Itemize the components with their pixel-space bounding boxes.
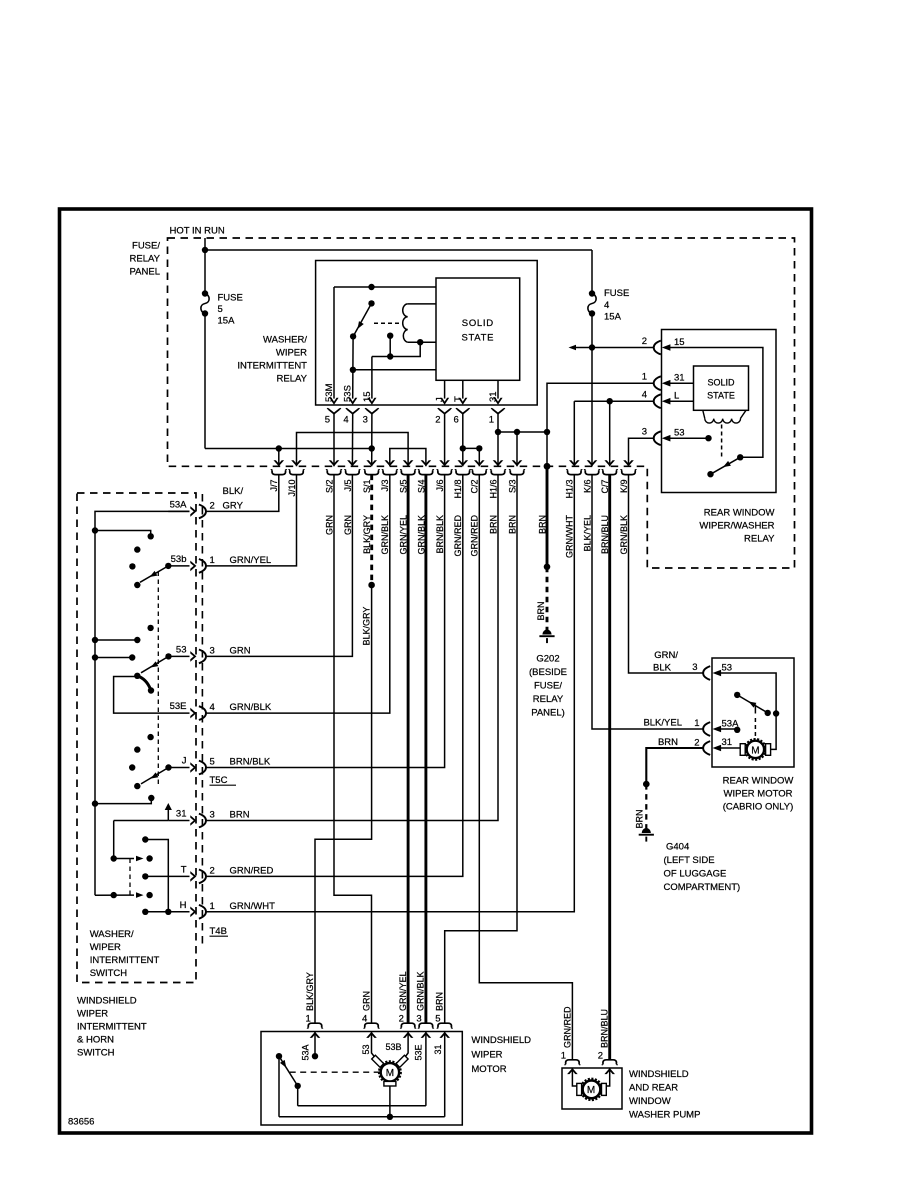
svg-text:WASHER/: WASHER/ bbox=[90, 929, 134, 940]
svg-text:2: 2 bbox=[399, 1014, 404, 1025]
switch M2 park contacts bbox=[734, 692, 779, 717]
svg-text:REAR WINDOW: REAR WINDOW bbox=[704, 508, 775, 519]
wire fuse4 to U2 pin2 bbox=[592, 347, 654, 349]
svg-text:BRN: BRN bbox=[230, 810, 250, 821]
label T4B bbox=[210, 926, 229, 937]
svg-text:3: 3 bbox=[416, 1014, 421, 1025]
wire U1 pin1 stem bbox=[497, 380, 499, 398]
connector 1 at pump (GRN/RED) bbox=[561, 1006, 580, 1074]
pump M3 box bbox=[562, 1068, 622, 1109]
svg-text:GRN: GRN bbox=[361, 991, 371, 1011]
svg-text:1: 1 bbox=[489, 415, 494, 426]
svg-text:53: 53 bbox=[674, 428, 685, 439]
svg-text:T4B: T4B bbox=[210, 926, 227, 937]
svg-text:2: 2 bbox=[598, 1051, 603, 1062]
wire fuse4 feed drop bbox=[591, 250, 593, 294]
connector H1/8 at panel edge bbox=[453, 460, 470, 556]
arrow feed to other circuits bbox=[569, 345, 593, 351]
wire M1 park common bbox=[278, 1056, 280, 1117]
node L row at C/7 bbox=[607, 398, 613, 404]
wire U2 L internal bbox=[668, 400, 694, 402]
connector J/3 at panel edge bbox=[380, 460, 397, 554]
svg-text:15A: 15A bbox=[604, 312, 622, 323]
svg-text:31: 31 bbox=[433, 1044, 443, 1054]
coil U1 bbox=[403, 304, 408, 342]
svg-text:PANEL: PANEL bbox=[130, 267, 160, 278]
label HOT IN RUN bbox=[170, 226, 225, 237]
node fuse rail at J/7 bbox=[276, 445, 282, 451]
wire H1/3 GRN/WHT to switch pin H bbox=[205, 475, 574, 912]
wire H1/6 BRN to switch pin 31 bbox=[205, 475, 498, 821]
svg-text:H1/8: H1/8 bbox=[453, 480, 463, 499]
label WINDSHIELD WIPER MOTOR bbox=[471, 1035, 531, 1075]
diagram number 83656 bbox=[68, 1117, 94, 1128]
svg-text:GRN/WHT: GRN/WHT bbox=[565, 515, 575, 558]
svg-text:WIPER: WIPER bbox=[276, 348, 307, 359]
label 53 in M1 bbox=[361, 1044, 371, 1054]
label BLK/YEL at rear motor pin 1 bbox=[643, 718, 682, 729]
svg-text:WIPER/WASHER: WIPER/WASHER bbox=[699, 521, 774, 532]
pin 6 (T) relay U1 exit bbox=[453, 396, 470, 426]
wire wafer4 mid to H row bbox=[145, 840, 168, 912]
wire U1 coil bottom lead bbox=[408, 341, 436, 343]
contact dot wafer2 upper bbox=[147, 625, 153, 631]
connector J/7 at panel edge bbox=[269, 460, 286, 491]
svg-text:(LEFT SIDE: (LEFT SIDE bbox=[664, 855, 715, 866]
pin 2 (J) relay U1 exit bbox=[435, 397, 452, 426]
svg-text:3: 3 bbox=[642, 427, 647, 438]
wire K/9 GRN/BLK to rear motor bbox=[629, 475, 704, 673]
link wafer4 dashed bbox=[129, 859, 131, 896]
wire brn rail bbox=[498, 431, 547, 433]
wiper arc wafer2 bbox=[137, 676, 150, 690]
svg-text:GRN/BLK: GRN/BLK bbox=[619, 515, 629, 555]
switch wafer1 53b moving contact bbox=[134, 563, 171, 589]
svg-text:FUSE/: FUSE/ bbox=[132, 241, 160, 252]
svg-text:GRN/RED: GRN/RED bbox=[562, 1006, 572, 1048]
svg-text:53S: 53S bbox=[343, 385, 354, 402]
connector 4 at motor M1 (GRN) bbox=[361, 991, 379, 1038]
svg-text:GRN/BLK: GRN/BLK bbox=[230, 702, 272, 713]
svg-text:MOTOR: MOTOR bbox=[471, 1064, 506, 1075]
wire grn/yel rail J/10 to S/5 bbox=[297, 433, 409, 467]
node fuse rail at S/1 bbox=[369, 445, 375, 451]
svg-text:53M: 53M bbox=[324, 383, 335, 402]
wire fuse5 feed drop bbox=[204, 250, 206, 294]
wire M1 53E bus bbox=[298, 1105, 426, 1107]
label 53B in M1 bbox=[386, 1042, 402, 1052]
svg-text:1: 1 bbox=[210, 901, 215, 912]
connector K/6 at panel edge bbox=[582, 460, 599, 551]
wire U1 coil top lead bbox=[408, 303, 436, 305]
svg-text:G202: G202 bbox=[536, 654, 559, 665]
svg-text:INTERMITTENT: INTERMITTENT bbox=[90, 955, 160, 966]
svg-text:BRN/BLU: BRN/BLU bbox=[600, 1009, 610, 1048]
connector S/4 at panel edge bbox=[416, 460, 433, 554]
wire M2 53A stub bbox=[719, 727, 740, 733]
svg-text:5: 5 bbox=[435, 1014, 440, 1025]
wire BRN dashed to G404 bbox=[645, 784, 647, 831]
svg-text:WIPER: WIPER bbox=[90, 942, 121, 953]
wire M2 ground lead bbox=[646, 748, 704, 784]
wire pin3 to fuse rail bbox=[371, 414, 373, 467]
svg-text:3: 3 bbox=[692, 662, 697, 673]
connector J/6 at panel edge bbox=[435, 460, 452, 553]
svg-text:WINDOW: WINDOW bbox=[629, 1096, 671, 1107]
svg-text:GRN/BLK: GRN/BLK bbox=[416, 971, 426, 1011]
wire wafer2 arm a bbox=[95, 637, 141, 643]
svg-text:15: 15 bbox=[362, 391, 373, 402]
wire J/5 GRN to switch pin 3 bbox=[205, 475, 352, 657]
svg-text:1: 1 bbox=[694, 718, 699, 729]
svg-text:BRN: BRN bbox=[435, 992, 445, 1011]
connector S/1 at panel edge bbox=[362, 460, 379, 554]
relay U1 washer/wiper intermittent relay box bbox=[316, 261, 538, 406]
switch wafer2 53 moving contact bbox=[134, 653, 172, 679]
svg-text:AND REAR: AND REAR bbox=[629, 1083, 678, 1094]
solid state module U1a bbox=[436, 278, 520, 380]
switch terminal T (pin 2) bbox=[181, 864, 274, 883]
svg-text:4: 4 bbox=[210, 702, 215, 713]
svg-text:WIPER: WIPER bbox=[471, 1050, 502, 1061]
node fuse4 distribution junction bbox=[589, 344, 595, 350]
node U1 coil bottom junction bbox=[417, 339, 423, 345]
wire wafer3 lower arm bbox=[92, 795, 155, 807]
wire 53b output bbox=[168, 565, 189, 567]
label WASHER/WIPER INTERMITTENT RELAY bbox=[237, 335, 307, 385]
svg-text:& HORN: & HORN bbox=[77, 1035, 114, 1046]
svg-text:J: J bbox=[435, 397, 446, 402]
wire U2 pin4 L row bbox=[574, 400, 653, 402]
node M1 31 bus junction bbox=[387, 1114, 393, 1120]
wire M1 31 stem bbox=[444, 1032, 446, 1117]
node hot-in-run junction bbox=[202, 247, 208, 253]
splice on Z/2 bbox=[544, 564, 551, 571]
svg-text:BLK/YEL: BLK/YEL bbox=[643, 718, 682, 729]
ground G202 bbox=[539, 630, 554, 644]
wire S/5 GRN/YEL down bbox=[407, 475, 410, 1024]
switch terminal 53b (pin 1) bbox=[171, 554, 272, 573]
svg-text:WINDSHIELD: WINDSHIELD bbox=[471, 1035, 531, 1046]
wire pin5 to S/2 bbox=[333, 414, 335, 467]
wire hot feed from panel edge bbox=[204, 238, 206, 250]
pin 3 (53) rear motor connector bbox=[692, 662, 732, 680]
connector S/3 at panel edge bbox=[507, 460, 524, 534]
svg-text:BRN/BLK: BRN/BLK bbox=[435, 515, 445, 554]
svg-text:GRN/YEL: GRN/YEL bbox=[398, 971, 408, 1011]
switch wafer4 upper moving contact bbox=[111, 855, 153, 861]
wire J/10 GRN/YEL to switch pin 1 bbox=[205, 475, 296, 566]
svg-text:53B: 53B bbox=[386, 1042, 402, 1052]
svg-text:HOT IN RUN: HOT IN RUN bbox=[170, 226, 225, 237]
label G202 (BESIDE FUSE/RELAY PANEL) bbox=[529, 654, 567, 719]
svg-text:WINDSHIELD: WINDSHIELD bbox=[77, 996, 137, 1007]
svg-text:J/10: J/10 bbox=[287, 480, 297, 497]
svg-text:T: T bbox=[453, 396, 464, 402]
pin 1 (31) relay U2 connector bbox=[642, 372, 685, 390]
connector 2 at pump (BRN/BLU) bbox=[598, 1009, 618, 1074]
label 31 in M1 bbox=[433, 1044, 443, 1054]
svg-text:BRN: BRN bbox=[507, 515, 517, 534]
svg-text:5: 5 bbox=[218, 304, 223, 315]
motor M2 rear window wiper motor box bbox=[712, 658, 794, 767]
wire M1 53 stem bbox=[372, 1032, 377, 1060]
label GRN/BLK at rear motor pin 3 bbox=[653, 650, 678, 674]
pin 3 (53) relay U2 connector bbox=[642, 427, 685, 445]
pin 2 (15) relay U2 connector bbox=[642, 336, 685, 354]
outer border frame bbox=[60, 209, 812, 1133]
label BLK/GRY on S/1 lower bbox=[361, 607, 371, 646]
wire H1/8 GRN/RED to switch pin T bbox=[205, 475, 463, 877]
node grn/red split left bbox=[460, 445, 466, 451]
svg-text:FUSE: FUSE bbox=[604, 288, 629, 299]
svg-text:WIPER MOTOR: WIPER MOTOR bbox=[724, 789, 793, 800]
connector 2 at motor M1 (GRN/YEL) bbox=[398, 971, 416, 1037]
svg-text:OF LUGGAGE: OF LUGGAGE bbox=[664, 869, 727, 880]
svg-text:15A: 15A bbox=[218, 316, 236, 327]
connector C/2 at panel edge bbox=[470, 460, 487, 556]
wire T output bbox=[142, 873, 189, 879]
motor M2 armature bbox=[740, 739, 770, 760]
wire J/6 BRN/BLK to switch pin 5 bbox=[205, 475, 444, 768]
node U1 top bus junction bbox=[368, 284, 374, 290]
connector S/5 at panel edge bbox=[399, 460, 416, 554]
contact dot wafer4 mid bbox=[142, 836, 148, 842]
label BRN on G404 lead bbox=[634, 809, 644, 828]
motor M3 armature bbox=[577, 1079, 607, 1101]
wire U1 pin5 riser bbox=[333, 287, 335, 399]
wire M1 53B stem bbox=[403, 1032, 408, 1060]
wire Z/2 BRN to splice bbox=[546, 466, 549, 567]
wire S/4 GRN/BLK down bbox=[424, 475, 427, 1024]
svg-text:J/3: J/3 bbox=[380, 480, 390, 492]
switch M1 park contact bbox=[276, 1053, 301, 1089]
label T5C bbox=[210, 775, 237, 786]
svg-text:M: M bbox=[386, 1068, 394, 1079]
connector S/2 at panel edge bbox=[324, 460, 341, 535]
connector J/10 at panel edge bbox=[287, 460, 304, 496]
switch terminal 53A (pin 2) bbox=[170, 499, 215, 518]
node bus tap wafer2b bbox=[92, 654, 98, 660]
svg-text:L: L bbox=[674, 391, 679, 402]
wire J/7 BLK/GRY to switch pin 2 bbox=[205, 475, 278, 512]
relay U2 rear window wiper/washer relay box bbox=[662, 330, 777, 493]
wire grn/blk rail J/3 to S/4 bbox=[390, 449, 426, 467]
svg-text:(BESIDE: (BESIDE bbox=[529, 667, 567, 678]
pin 3 (15) relay U1 exit bbox=[362, 391, 379, 425]
wire U1 internal top bus bbox=[334, 286, 436, 288]
wire 53 output bbox=[169, 655, 190, 657]
wire U1 pin4 riser bbox=[350, 336, 356, 398]
svg-text:GRN: GRN bbox=[324, 515, 334, 535]
wire J/3 GRN/BLK to switch pin 4 bbox=[205, 475, 389, 713]
wire U2 31 internal bbox=[668, 382, 694, 384]
svg-text:53: 53 bbox=[176, 644, 187, 655]
contact dot wafer2 lower bbox=[148, 687, 154, 693]
svg-text:M: M bbox=[587, 1085, 595, 1096]
svg-text:FUSE/: FUSE/ bbox=[534, 681, 562, 692]
wire switch 53A feed bus bbox=[95, 511, 190, 895]
svg-text:GRY: GRY bbox=[223, 500, 244, 511]
pin 1 (31) relay U1 exit bbox=[488, 391, 505, 425]
link M2 park linkage bbox=[754, 705, 756, 738]
node Z/2 junction on panel edge bbox=[544, 463, 551, 470]
wire S/1 BLK/GRY to motor bbox=[315, 585, 372, 1023]
svg-text:1: 1 bbox=[561, 1051, 566, 1062]
switch U1 internal contacts bbox=[350, 300, 375, 339]
wire U1 pin6 stem bbox=[462, 380, 464, 398]
svg-text:31: 31 bbox=[488, 391, 499, 402]
svg-text:J/6: J/6 bbox=[435, 480, 445, 492]
switch wafer3 J moving contact bbox=[134, 764, 172, 789]
svg-text:4: 4 bbox=[362, 1014, 367, 1025]
svg-text:83656: 83656 bbox=[68, 1117, 94, 1128]
ground G404 bbox=[639, 828, 654, 842]
svg-text:T: T bbox=[181, 864, 187, 875]
svg-text:WIPER: WIPER bbox=[77, 1009, 108, 1020]
label REAR WINDOW WIPER/WASHER RELAY bbox=[699, 508, 775, 545]
fuse F4 15A bbox=[588, 290, 596, 316]
wire S/3 BRN to motor pin 31 bbox=[445, 475, 517, 1024]
svg-text:RELAY: RELAY bbox=[130, 254, 161, 265]
wire 53A output bbox=[168, 510, 189, 512]
wire U2 pin1 to brn rail bbox=[547, 383, 654, 432]
wire M2 31 to motor bbox=[719, 747, 741, 749]
wire pin1 to brn rail bbox=[497, 414, 499, 467]
svg-text:15: 15 bbox=[674, 337, 685, 348]
svg-text:3: 3 bbox=[210, 810, 215, 821]
wire H output bbox=[142, 909, 189, 915]
capacitor stub U1 bbox=[387, 333, 393, 360]
label WASHER/WIPER INTERMITTENT SWITCH bbox=[90, 929, 160, 979]
pin 4 (53S) relay U1 exit bbox=[343, 385, 360, 425]
wire U2 15 row internal loop bbox=[668, 348, 763, 458]
wire H1/3 upper drop bbox=[573, 401, 575, 466]
svg-text:BLK/GRY: BLK/GRY bbox=[361, 607, 371, 646]
wire grn/red split rail bbox=[463, 447, 480, 449]
svg-text:2: 2 bbox=[642, 336, 647, 347]
motor M1 windshield wiper motor box bbox=[261, 1032, 462, 1126]
svg-text:K/9: K/9 bbox=[619, 480, 629, 494]
svg-text:H1/6: H1/6 bbox=[488, 480, 498, 499]
wire M3 lead 2 bbox=[604, 1068, 610, 1086]
switch terminal 53 (pin 3) bbox=[176, 644, 251, 663]
svg-text:STATE: STATE bbox=[461, 333, 494, 344]
wire M3 lead 1 bbox=[572, 1068, 578, 1086]
svg-text:53b: 53b bbox=[171, 554, 187, 565]
wire wafer1 feed arm bbox=[95, 531, 154, 540]
wire M2 53 internal rail bbox=[719, 673, 776, 749]
svg-text:31: 31 bbox=[176, 809, 187, 820]
pin 1 (53A) rear motor connector bbox=[694, 718, 739, 736]
svg-text:GRN/RED: GRN/RED bbox=[470, 515, 480, 557]
connector C/7 at panel edge bbox=[600, 460, 617, 554]
svg-text:GRN/: GRN/ bbox=[654, 650, 678, 661]
pin 2 (31) rear motor connector bbox=[694, 737, 732, 755]
svg-text:J/7: J/7 bbox=[269, 480, 279, 492]
connector 3 at motor M1 (GRN/BLK) bbox=[416, 971, 434, 1037]
node bus tap wafer1 bbox=[92, 527, 98, 533]
switch terminal 53E (pin 4) bbox=[170, 701, 272, 720]
link switch wafers dashed bbox=[157, 572, 159, 787]
wire Z/2 BRN dashed to ground bbox=[546, 567, 549, 634]
wire fuse5 output bbox=[204, 314, 206, 449]
svg-text:C/2: C/2 bbox=[470, 480, 480, 494]
arrow wafer4 up bbox=[165, 803, 172, 821]
svg-text:2: 2 bbox=[210, 500, 215, 511]
svg-text:3: 3 bbox=[363, 415, 368, 426]
svg-text:BLK: BLK bbox=[653, 663, 672, 674]
connector H1/6 at panel edge bbox=[488, 460, 505, 534]
svg-text:S/2: S/2 bbox=[324, 480, 334, 494]
svg-text:31: 31 bbox=[722, 737, 733, 748]
switch terminal J (pin 5) bbox=[182, 756, 271, 775]
svg-text:J/5: J/5 bbox=[343, 480, 353, 492]
svg-text:(CABRIO ONLY): (CABRIO ONLY) bbox=[723, 802, 794, 813]
label BRN on Z/2 ground lead bbox=[536, 601, 546, 620]
switch terminal H (pin 1) bbox=[180, 900, 275, 919]
label WINDSHIELD AND REAR WINDOW WASHER PUMP bbox=[629, 1069, 700, 1121]
splice S1 bbox=[368, 582, 375, 589]
wire K/6 BLK/YEL to rear motor bbox=[592, 475, 704, 729]
svg-text:SWITCH: SWITCH bbox=[77, 1048, 115, 1059]
svg-text:53: 53 bbox=[722, 663, 733, 674]
label WINDSHIELD WIPER INTERMITTENT & HORN SWITCH bbox=[77, 996, 147, 1059]
label 53A in M1 bbox=[300, 1044, 310, 1060]
label BLK/GRY at pin 2 bbox=[223, 486, 244, 511]
wire U1 bottom bus bbox=[353, 369, 436, 371]
wire M1 park nc bbox=[297, 1086, 299, 1106]
connector J/5 at panel edge bbox=[343, 460, 360, 535]
svg-text:53: 53 bbox=[361, 1044, 371, 1054]
motor M1 armature bbox=[372, 1055, 408, 1086]
svg-text:BLK/GRY: BLK/GRY bbox=[305, 972, 315, 1011]
wire C/2 drop bbox=[478, 448, 480, 466]
switch terminal 31 (pin 3) bbox=[176, 809, 250, 828]
svg-text:FUSE: FUSE bbox=[218, 293, 243, 304]
svg-text:M: M bbox=[751, 745, 759, 756]
label 53E in M1 bbox=[414, 1044, 424, 1060]
node bus tap wafer2a bbox=[92, 637, 98, 643]
node brn rail at H1/6 bbox=[495, 429, 501, 435]
splice on M2 ground lead bbox=[643, 781, 650, 788]
svg-text:53E: 53E bbox=[414, 1044, 424, 1060]
label FUSE 5 15A bbox=[218, 293, 243, 327]
svg-text:SWITCH: SWITCH bbox=[90, 968, 128, 979]
node brn rail at Z/2 bbox=[544, 429, 550, 435]
connector 1 at motor M1 (BLK/GRY) bbox=[305, 972, 323, 1038]
wire fuse4 output bbox=[591, 314, 593, 467]
svg-text:H1/3: H1/3 bbox=[565, 480, 575, 499]
svg-text:31: 31 bbox=[674, 373, 685, 384]
wire M1 53E stem bbox=[425, 1032, 427, 1106]
wire 53E to wafer2 pivot bbox=[114, 677, 190, 714]
wire J/7 drop bbox=[278, 449, 280, 467]
svg-text:GRN/RED: GRN/RED bbox=[230, 865, 274, 876]
svg-text:J: J bbox=[182, 756, 187, 767]
svg-text:INTERMITTENT: INTERMITTENT bbox=[77, 1022, 147, 1033]
svg-text:WASHER PUMP: WASHER PUMP bbox=[629, 1110, 700, 1121]
wire S/3 drop bbox=[516, 432, 518, 466]
svg-text:K/6: K/6 bbox=[582, 480, 592, 494]
wire C/7 BRN/BLU to washer pump bbox=[608, 475, 611, 1060]
connector Z/2 at panel edge bbox=[537, 515, 547, 534]
link U2 coil-switch dashed bbox=[721, 425, 723, 460]
svg-text:4: 4 bbox=[343, 415, 348, 426]
wire S/2 GRN down bbox=[334, 475, 372, 1024]
wire M1 motor to 31 bus bbox=[389, 1086, 391, 1117]
svg-text:GRN/RED: GRN/RED bbox=[453, 515, 463, 557]
